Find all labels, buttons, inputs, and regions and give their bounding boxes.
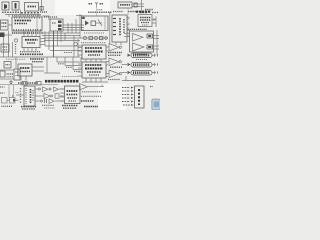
wire A3 to DL3 (122, 72, 128, 74)
magnet symbol (15, 3, 17, 9)
label under A2 (110, 66, 122, 68)
wire vertical from power (41, 0, 43, 11)
staircase vertical x65 (64, 57, 66, 66)
staircase vertical x57 (56, 57, 58, 62)
row1 wire in (35, 88, 39, 90)
mesh vertical x78 (77, 39, 79, 57)
IC-B left stubs (78, 63, 82, 65)
marks right of verticals (16, 92, 20, 94)
label under DL1 (136, 59, 147, 61)
IF box G1 (112, 15, 127, 42)
DL2 hatch (133, 63, 150, 66)
text in mid-left box (6, 64, 10, 66)
power supply box PS (25, 3, 39, 12)
K1 caption row2 (63, 107, 77, 109)
arrow before DL1 (128, 54, 131, 57)
tick column (15, 44, 17, 54)
faint text under y57 wire (6, 58, 26, 60)
background paper (0, 0, 160, 110)
small labels center (58, 63, 64, 65)
mesh vertical x49 (48, 31, 50, 50)
wire under delay lines (122, 80, 155, 82)
staircase wire y69.5 (73, 69, 82, 71)
IC1 pin ticks bottom (14, 29, 42, 31)
mesh horizontal y38 (44, 37, 80, 39)
wire A2 to DL2 (122, 64, 128, 66)
vertical wire x16 (15, 57, 17, 68)
mesh horizontal y40.5 (44, 40, 80, 42)
memory IC2 (22, 37, 40, 48)
component on wire 1 (22, 82, 27, 86)
connector box L1 (135, 86, 145, 108)
antenna label (89, 3, 93, 5)
row2 amp (44, 93, 50, 98)
IC-B text row2 (85, 68, 103, 70)
tuner diode (85, 21, 89, 26)
row3 wire (55, 100, 64, 102)
wire top right bottom (140, 12, 147, 14)
scan box I1 (18, 64, 32, 76)
label under A1 row2 (108, 54, 121, 56)
faint row above caption strip (62, 76, 78, 78)
IC1 text row1 (15, 20, 32, 22)
text under H1 (133, 53, 147, 55)
I1 bottom stubs (20, 76, 22, 81)
delay line DL1 (131, 53, 152, 58)
mesh horizontal y50.5 (50, 50, 82, 52)
IC2 text row1 (25, 39, 38, 41)
staircase vertical x73 (72, 57, 74, 70)
amp A3 (109, 70, 119, 78)
vertical wire x12.5 (12, 42, 14, 57)
op-amp T1 (133, 34, 144, 42)
chain circle 2 (94, 36, 97, 39)
speaker symbol (4, 4, 7, 9)
dotted row below (2, 105, 13, 107)
tick on T6 wire (101, 85, 103, 87)
H1 pad 1 (147, 34, 153, 38)
wires from T6 (88, 86, 105, 88)
vertical x47 (46, 57, 48, 73)
mesh horizontal y35.5 (42, 35, 80, 37)
A3 output node (119, 73, 121, 75)
wires out of H1 (154, 35, 160, 37)
wires into H1 (124, 33, 130, 35)
audio power box H1 (130, 31, 154, 52)
D1 text (2, 22, 8, 24)
tuner left pad (82, 17, 85, 19)
text under row2 (42, 104, 54, 106)
small label right top (145, 9, 153, 11)
row3 amp (49, 99, 54, 104)
stub down from DL wire (125, 76, 127, 81)
stubs from C1 (152, 19, 156, 21)
I1 text (20, 67, 30, 69)
stubs right of delay lines (152, 54, 156, 56)
text left-below B1 (113, 11, 123, 13)
vertical wire left (3, 37, 5, 57)
IC-A left stubs (78, 47, 82, 49)
small box bl1 (2, 98, 8, 104)
wire pair from B1 (132, 3, 144, 5)
IC2 text row2 (27, 42, 35, 44)
text row under degauss box (128, 11, 140, 13)
flyback dark label (136, 11, 151, 13)
end pads right (157, 54, 159, 57)
wire antenna to tuner (96, 8, 98, 17)
IC1 text row2 (15, 23, 28, 25)
J1 caption row2 (22, 108, 35, 110)
wire right of IC1 L-shape (42, 16, 49, 20)
mesh vertical x61 (60, 31, 62, 42)
arrow before DL2 (128, 63, 131, 66)
J1 inner text (30, 89, 32, 103)
label right of T6 (82, 91, 102, 93)
J1 input wire (16, 94, 24, 96)
key box E1 (50, 19, 63, 31)
K1 caption below (62, 105, 78, 107)
CRT drive IC K1 (65, 86, 81, 104)
mesh circle (74, 42, 78, 46)
arrow before DL3 (128, 71, 131, 74)
deflection yoke box C1 (138, 15, 152, 27)
row1 node2 (49, 88, 51, 90)
antenna mast (96, 3, 98, 8)
J1 inner pin column (25, 88, 27, 104)
bus IC1-IC2 (23, 31, 25, 37)
vertical wires left bottom (8, 85, 10, 98)
crystal circle (14, 39, 17, 42)
staircase wire y65.5 (65, 65, 82, 67)
mesh horizontal y33 (42, 32, 80, 34)
DL3 hatch (133, 71, 150, 74)
H1 pad 1 mark (148, 35, 151, 37)
tuner box F1 (82, 16, 109, 31)
text in B1 (120, 4, 130, 6)
label right of antenna (100, 3, 104, 5)
component on vertical wire (40, 7, 43, 11)
text mid (7, 73, 14, 75)
box lower-left 2 (14, 69, 20, 80)
wire vertical right top (141, 0, 143, 13)
dashed rail to audio (127, 8, 129, 33)
IC-B text row1 (85, 64, 102, 66)
J1 left pin labels (20, 88, 22, 104)
vertical wire x8 (8, 31, 10, 57)
tiny text under antenna (98, 9, 104, 11)
reset box left (1, 44, 9, 52)
L1 stacked marks (138, 89, 140, 105)
A2 output node (119, 61, 121, 63)
mesh vertical x45 (44, 31, 46, 46)
wire between bl boxes (7, 99, 10, 101)
staircase wire y73 (44, 72, 60, 74)
H1 pad 2 mark (148, 46, 151, 48)
bl2 dark mark (13, 99, 15, 102)
right rail 2 (156, 30, 158, 55)
long wire y57 (0, 56, 80, 58)
end ticks right (154, 54, 156, 58)
bl2 top stub (12, 95, 14, 98)
CPU IC1 (12, 17, 42, 31)
chain box 1 (89, 36, 92, 39)
jungle IC J1 (24, 86, 35, 106)
label under IC2 row2 (20, 53, 43, 55)
row2 wire (60, 95, 64, 97)
row1 amp2 (54, 87, 59, 91)
K1 text rows (67, 90, 79, 92)
background light patch right bottom (98, 84, 126, 110)
I1 right wires (32, 66, 44, 68)
chain circle 3 (105, 37, 108, 40)
row3 cap (45, 99, 47, 103)
stubs below IC2 (23, 48, 25, 52)
speaker box SP2 (12, 2, 19, 11)
IC-B bottom stubs (85, 78, 87, 82)
wire from blob (5, 34, 13, 36)
tuner inner box (91, 21, 96, 26)
staircase wire y62 (57, 61, 82, 63)
chain labels below (81, 42, 106, 44)
G1 pin stubs (113, 18, 116, 20)
wires IC-B to amps (106, 61, 109, 63)
mesh vertical x53.5 dark (53, 31, 55, 57)
D1 to IC1 wire (8, 24, 12, 26)
row3 wire in (35, 100, 40, 102)
dark blob left edge (0, 33, 5, 38)
IC-A text row1 (85, 47, 102, 49)
ladder top corner (76, 15, 82, 17)
component between B1 wires (134, 3, 137, 7)
left bottom dashes 1 (0, 86, 5, 88)
IC-A to IC-B stubs (85, 59, 87, 62)
IC1 top ticks (14, 17, 41, 19)
DL1 hatch (133, 54, 150, 57)
chain box 2 (100, 36, 103, 39)
pin list arrows left of L1 (122, 88, 130, 106)
tuner caption (88, 11, 112, 13)
C1 stub tick (153, 18, 155, 21)
ground symbol (9, 80, 13, 84)
vertical wire between tuner and IF (109, 12, 111, 44)
IC-A text row2 (85, 51, 103, 53)
wires IC-A to A1 (106, 46, 109, 48)
H1 pad 2 (147, 45, 153, 49)
speaker stubs (4, 10, 6, 12)
tiny mark top right bottom area (150, 86, 153, 88)
mesh horizontal y46 (45, 45, 82, 47)
chroma IC-A (82, 45, 106, 59)
blue icon bottom right (152, 99, 161, 110)
G1 right stubs (127, 17, 130, 19)
power supply text (28, 6, 37, 8)
background light patch center (42, 42, 60, 54)
IC1 inner divider (36, 17, 38, 31)
small box D1 left (1, 20, 9, 30)
E1 caption above (44, 16, 57, 18)
audio amp A1 under G1 (109, 44, 119, 52)
wire y79 (0, 78, 14, 80)
J1 caption below (21, 106, 36, 108)
K1 left stubs (60, 88, 65, 90)
bus ladder verticals (67, 23, 69, 33)
delay line DL3 (131, 71, 152, 76)
pin label row under IC1 (12, 32, 43, 34)
tuner arrow (96, 22, 102, 24)
left bottom dashes 2 (0, 92, 5, 94)
wire under IC-B (82, 81, 108, 83)
pin row under power box (21, 12, 39, 14)
reset box text (3, 46, 8, 48)
row2 wire in (35, 95, 44, 97)
G1 vertical text col1 (119, 18, 121, 36)
label under speakers (2, 11, 19, 13)
right rail (155, 17, 157, 28)
IC-B text row4 (89, 74, 99, 76)
stub from SP2 (20, 10, 22, 15)
row3 node (41, 100, 43, 102)
mesh vertical x57.5 (57, 31, 59, 46)
H1 caption above (128, 28, 148, 30)
label under A1 (108, 52, 122, 54)
background light patch top center (55, 0, 110, 15)
mesh label (64, 52, 72, 54)
pin arrows (131, 87, 134, 107)
bus ladder horizontals (63, 24, 84, 26)
mesh vertical x65 (64, 33, 66, 40)
SAW filter chain (80, 37, 108, 39)
tuner mark (98, 20, 102, 27)
text rows bottom center-right (81, 95, 102, 97)
dark caption strip bottom center (45, 80, 79, 83)
E1 text (52, 22, 56, 24)
IC-B text row3 (87, 71, 101, 73)
wire y70 (0, 69, 14, 71)
A1 output node (119, 46, 121, 48)
caption scan circuit (30, 58, 44, 60)
component on wire 2 (36, 82, 41, 86)
chain circle 1 (83, 36, 86, 39)
IC-A text row3 (88, 54, 100, 56)
G1 bottom stubs (115, 42, 117, 45)
wire right of bl2 (15, 99, 19, 101)
caption bottom of I1 (18, 82, 38, 84)
labels under tuner (84, 32, 104, 34)
text under row3 (44, 107, 55, 109)
amp T6 top (80, 84, 88, 91)
op-amp T2 (133, 43, 145, 51)
IC1 top stubs (15, 15, 17, 18)
IC2 right stubs (40, 38, 45, 40)
row1 wire (59, 88, 64, 90)
tuner inner divider (104, 16, 106, 31)
IC1 top pin labels (12, 15, 41, 17)
label under IC2 row1 (20, 51, 40, 53)
wire from speakers to CPU (5, 14, 41, 16)
row2 node (51, 95, 53, 97)
degauss box B1 (118, 2, 132, 8)
G1 vertical text col2 (123, 19, 125, 34)
label small (40, 11, 47, 13)
small box mid-left (4, 62, 11, 69)
row1 node (39, 88, 41, 90)
staircase vertical x81 (80, 57, 82, 62)
amp A2 (109, 58, 119, 66)
row1 amp (43, 87, 48, 92)
C1 text rows (140, 17, 151, 19)
speaker box SP1 (2, 2, 9, 10)
small box lower-left (0, 71, 5, 77)
video IC-B (82, 62, 106, 78)
antenna dipole (95, 2, 98, 5)
mesh vertical x74 (73, 36, 75, 57)
J1 inner text col2 (32, 90, 34, 102)
label under A3 (108, 79, 120, 81)
E1 pads (58, 21, 62, 24)
small box bl2 (10, 98, 16, 104)
stub down (8, 15, 10, 18)
text in box lower-left 2 (16, 71, 19, 73)
section wire y84.5 (0, 84, 58, 86)
delay line DL2 (131, 63, 152, 68)
row2 box (55, 94, 59, 98)
